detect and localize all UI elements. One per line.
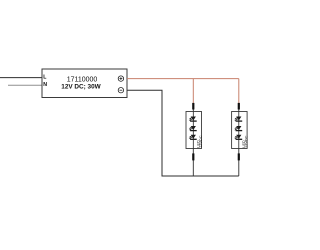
wire riser LED module 1 bottom	[192, 149, 194, 177]
LED D1	[189, 117, 197, 122]
LED module LM2 (LED 12VDC)	[232, 112, 248, 149]
LED module LM1 (LED 12VDC)	[186, 112, 202, 149]
LED D2	[189, 126, 197, 131]
svg-text:12V DC; 30W: 12V DC; 30W	[61, 83, 101, 90]
terminal - (DC output minus)	[118, 88, 123, 93]
LED driver U1 (17110000, 12V DC; 30W)	[42, 69, 127, 98]
svg-text:12VDC: 12VDC	[199, 135, 203, 147]
wire 0V return (black, minus to bottom rail)	[127, 90, 239, 176]
wire stub LED module 1 top	[192, 104, 194, 112]
LED D3	[189, 135, 197, 140]
pin connector LED module 1 top	[192, 103, 194, 110]
wire riser LED module 2 bottom	[238, 149, 240, 177]
wire red drop to LED module 2	[238, 79, 240, 104]
pin connector LED module 2 bottom	[238, 153, 240, 160]
svg-text:N: N	[43, 82, 47, 88]
svg-text:12VDC: 12VDC	[245, 135, 249, 147]
LED D4	[234, 117, 242, 122]
LED D6	[234, 135, 242, 140]
wire N (mains neutral)	[8, 84, 42, 86]
wire stub LED module 2 top	[238, 104, 240, 112]
pin connector LED module 1 bottom	[192, 153, 194, 160]
wire +12V rail (red)	[127, 78, 239, 80]
wire L (mains live)	[0, 77, 42, 79]
terminal + (DC output plus)	[118, 76, 123, 81]
pin connector LED module 2 top	[238, 103, 240, 110]
LED D5	[234, 126, 242, 131]
wire red drop to LED module 1	[192, 79, 194, 104]
